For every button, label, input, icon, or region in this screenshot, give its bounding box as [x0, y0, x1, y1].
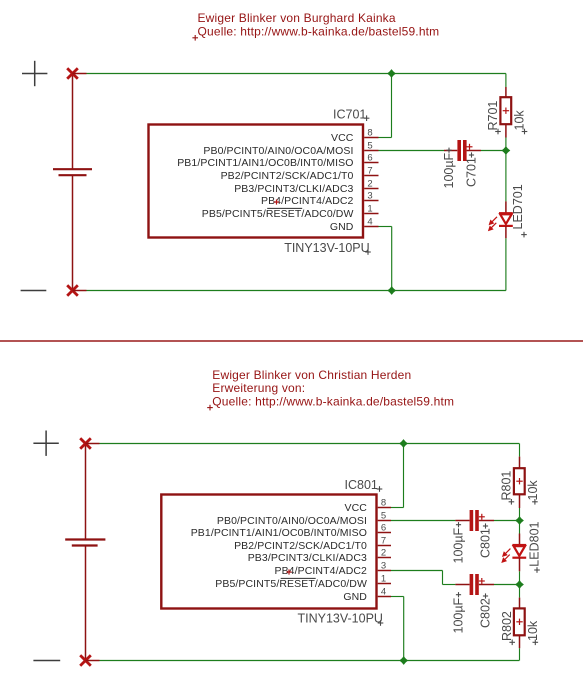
IC name origin cross: [377, 486, 383, 492]
junction dot on top rail: [387, 69, 396, 78]
IC name origin cross: [364, 115, 370, 121]
R701 name label: [486, 101, 500, 131]
C801 value 100µF: [452, 527, 466, 563]
resistor R801: [514, 444, 525, 521]
pin number 6: [367, 153, 372, 164]
pin number 4: [367, 217, 372, 228]
svg-text:Erweiterung von:: Erweiterung von:: [212, 381, 305, 395]
RESET overline: [281, 577, 316, 579]
pin name row 3: [261, 195, 354, 207]
svg-text:C801: C801: [479, 528, 493, 558]
pin name row 2: [234, 183, 353, 195]
title text: Erweiterung von:: [212, 381, 305, 395]
wire: bottom ground rail: [100, 660, 520, 662]
battery minus terminal symbol: [33, 660, 60, 662]
text origin cross at Quelle: [207, 405, 213, 411]
svg-text:8: 8: [367, 128, 372, 139]
pin number 1: [381, 574, 386, 585]
svg-text:PB2/PCINT2/SCK/ADC1/T0: PB2/PCINT2/SCK/ADC1/T0: [221, 170, 354, 182]
svg-text:100µF: 100µF: [452, 527, 466, 563]
IC IC701 ATtiny13: [149, 125, 364, 238]
pin 8 stub: [378, 507, 391, 509]
svg-text:3: 3: [367, 191, 372, 202]
IC part origin cross: [286, 569, 291, 574]
svg-text:2: 2: [367, 179, 372, 190]
battery minus terminal symbol: [21, 290, 47, 292]
IC value origin cross: [365, 249, 371, 255]
svg-text:Quelle: http://www.b-kainka.de: Quelle: http://www.b-kainka.de/bastel59.…: [198, 25, 440, 39]
IC part origin cross: [274, 199, 279, 204]
wire: pin 8 VCC to top rail: [379, 74, 392, 138]
LED LED701: [499, 151, 513, 291]
svg-text:4: 4: [367, 217, 372, 228]
pin number 7: [367, 166, 372, 177]
svg-text:7: 7: [367, 166, 372, 177]
pin 8 stub: [364, 137, 378, 139]
pin number 4: [381, 587, 386, 598]
pin number 8: [381, 498, 386, 509]
junction X at battery -: [80, 655, 91, 666]
svg-text:R701: R701: [486, 101, 500, 131]
title text: Ewiger Blinker von Burghard Kainka: [198, 11, 396, 25]
svg-text:3: 3: [381, 561, 386, 572]
pin 7 stub: [378, 545, 391, 547]
wire: battery + pin stub: [86, 443, 100, 445]
svg-text:1: 1: [381, 574, 386, 585]
IC value origin cross: [378, 620, 384, 626]
C802 name label: [479, 598, 493, 628]
junction dot on bottom rail: [399, 656, 408, 665]
pin number 8: [367, 128, 372, 139]
svg-text:10k: 10k: [526, 480, 540, 501]
svg-text:6: 6: [381, 523, 386, 534]
wire: pin 4 GND to bottom rail: [391, 597, 404, 661]
svg-text:PB3/PCINT3/CLKI/ADC3: PB3/PCINT3/CLKI/ADC3: [234, 183, 353, 195]
LED701 emission arrows: [489, 217, 498, 231]
C701 name origin cross: [469, 152, 474, 157]
pin name row 5: [217, 515, 367, 527]
svg-text:PB5/PCINT5/RESET/ADC0/DW: PB5/PCINT5/RESET/ADC0/DW: [202, 208, 354, 220]
pin number 2: [367, 179, 372, 190]
IC value label TINY13V-10PU: [284, 241, 369, 255]
svg-text:8: 8: [381, 498, 386, 509]
svg-text:7: 7: [381, 536, 386, 547]
sheet divider line: [0, 340, 583, 342]
text origin cross at Quelle: [192, 35, 198, 41]
C701 polarity plus: [467, 144, 473, 150]
pin number 2: [381, 548, 386, 559]
pin name row 3: [274, 565, 367, 577]
C802 polarity plus: [479, 578, 485, 584]
LED801 name origin cross: [534, 567, 540, 573]
R801 name label: [500, 471, 514, 501]
capacitor C701: [379, 140, 506, 161]
svg-text:5: 5: [381, 511, 386, 522]
svg-text:10k: 10k: [526, 620, 540, 641]
svg-text:LED701: LED701: [511, 184, 525, 229]
R701 origin cross inside body: [503, 108, 509, 114]
R801 value 10k: [526, 480, 540, 501]
svg-text:PB4/PCINT4/ADC2: PB4/PCINT4/ADC2: [261, 195, 354, 207]
pin 1 stub: [378, 583, 391, 585]
resistor R701: [500, 74, 511, 151]
junction dot R701/C701/LED701: [502, 146, 511, 155]
C801 polarity plus: [479, 514, 485, 520]
svg-text:Ewiger Blinker von Burghard Ka: Ewiger Blinker von Burghard Kainka: [198, 11, 396, 25]
IC value label TINY13V-10PU: [298, 612, 383, 626]
pin name row 6: [177, 157, 353, 169]
IC name label IC801: [345, 478, 378, 492]
pin name row 5: [203, 145, 353, 157]
svg-text:LED801: LED801: [528, 521, 542, 566]
C801 value origin cross: [456, 522, 461, 527]
svg-text:GND: GND: [343, 591, 367, 603]
C701 value 100µF: [442, 152, 456, 188]
C701 value origin cross: [446, 148, 451, 153]
svg-text:TINY13V-10PU: TINY13V-10PU: [284, 241, 369, 255]
R802 value origin cross: [533, 640, 539, 646]
pin 4 stub: [378, 596, 391, 598]
svg-text:PB2/PCINT2/SCK/ADC1/T0: PB2/PCINT2/SCK/ADC1/T0: [234, 540, 367, 552]
wire: pin 4 GND to bottom rail: [379, 227, 392, 291]
junction X at battery -: [67, 285, 78, 296]
pin 6 stub: [378, 532, 391, 534]
pin name row 4: [330, 221, 354, 233]
battery B701: [53, 74, 92, 291]
pin number 5: [367, 141, 372, 152]
svg-text:10k: 10k: [513, 110, 527, 131]
svg-text:PB5/PCINT5/RESET/ADC0/DW: PB5/PCINT5/RESET/ADC0/DW: [215, 578, 367, 590]
junction X at battery +: [80, 438, 91, 449]
svg-text:2: 2: [381, 548, 386, 559]
pin name row 1: [202, 208, 354, 220]
svg-text:C701: C701: [465, 157, 479, 187]
RESET overline: [267, 207, 302, 209]
R802 name label: [500, 611, 514, 641]
wire: pin 8 VCC to top rail: [391, 444, 404, 508]
R801 origin cross inside body: [516, 478, 522, 484]
svg-text:PB1/PCINT1/AIN1/OC0B/INT0/MISO: PB1/PCINT1/AIN1/OC0B/INT0/MISO: [191, 527, 367, 539]
svg-text:Quelle: http://www.b-kainka.de: Quelle: http://www.b-kainka.de/bastel59.…: [212, 394, 454, 408]
title text: Ewiger Blinker von Christian Herden: [212, 368, 411, 382]
svg-text:5: 5: [367, 141, 372, 152]
pin number 1: [367, 204, 372, 215]
svg-text:1: 1: [367, 204, 372, 215]
svg-text:VCC: VCC: [345, 502, 368, 514]
capacitor C802: [455, 574, 519, 595]
wire: pin 3 PB4 to C802: [391, 571, 455, 585]
junction dot on top rail: [399, 439, 408, 448]
pin 1 stub: [364, 213, 378, 215]
svg-text:100µF: 100µF: [452, 597, 466, 633]
C801 name origin cross: [483, 523, 488, 528]
pin name row 8: [331, 132, 354, 144]
capacitor C801: [391, 510, 520, 531]
pin number 5: [381, 511, 386, 522]
LED LED801: [512, 521, 526, 585]
pin name row 2: [248, 552, 367, 564]
pin 5 stub: [364, 150, 378, 152]
C802 name origin cross: [483, 593, 488, 598]
battery plus terminal symbol: [22, 61, 47, 86]
LED801 name label: [528, 521, 542, 566]
svg-text:TINY13V-10PU: TINY13V-10PU: [298, 612, 383, 626]
pin 7 stub: [364, 175, 378, 177]
svg-text:IC701: IC701: [333, 108, 366, 122]
C802 value 100µF: [452, 597, 466, 633]
R802 value 10k: [526, 620, 540, 641]
svg-text:6: 6: [367, 153, 372, 164]
pin name row 8: [345, 502, 368, 514]
junction dot LED801/C802/R802: [515, 580, 524, 589]
pin number 3: [381, 561, 386, 572]
R701 value 10k: [513, 110, 527, 131]
pin name row 1: [215, 578, 367, 590]
junction dot on bottom rail: [387, 286, 396, 295]
LED801 emission arrows: [502, 549, 511, 563]
svg-text:100µF: 100µF: [442, 152, 456, 188]
title text: Quelle: http://www.b-kainka.de/bastel59.: [198, 25, 440, 39]
junction dot R801/C801/LED801: [515, 516, 524, 525]
LED701 name origin cross: [521, 232, 527, 238]
pin 3 stub: [378, 570, 391, 572]
pin number 3: [367, 191, 372, 202]
title text: Quelle: http://www.b-kainka.de/bastel59.: [212, 394, 454, 408]
wire: bottom ground rail: [87, 290, 506, 292]
pin name row 7: [221, 170, 354, 182]
wire: battery + pin stub: [73, 73, 87, 75]
svg-text:PB4/PCINT4/ADC2: PB4/PCINT4/ADC2: [274, 565, 367, 577]
pin 4 stub: [364, 226, 378, 228]
C701 name label: [465, 157, 479, 187]
IC IC801 ATtiny13: [161, 495, 376, 609]
junction X at battery +: [67, 68, 78, 79]
wire: battery - pin stub: [86, 660, 100, 662]
svg-text:GND: GND: [330, 221, 354, 233]
R801 value origin cross: [532, 499, 538, 505]
C802 value origin cross: [456, 592, 461, 597]
R701 name origin cross: [495, 129, 501, 135]
R801 name origin cross: [509, 499, 515, 505]
wire: top supply rail: [100, 443, 520, 445]
svg-text:C802: C802: [479, 598, 493, 628]
pin number 6: [381, 523, 386, 534]
pin name row 4: [343, 591, 367, 603]
IC name label IC701: [333, 108, 366, 122]
R802 origin cross inside body: [516, 619, 522, 625]
C801 name label: [479, 528, 493, 558]
svg-text:PB3/PCINT3/CLKI/ADC3: PB3/PCINT3/CLKI/ADC3: [248, 552, 367, 564]
svg-text:Ewiger Blinker von Christian H: Ewiger Blinker von Christian Herden: [212, 368, 411, 382]
svg-text:4: 4: [381, 587, 386, 598]
pin 2 stub: [364, 188, 378, 190]
svg-text:R802: R802: [500, 611, 514, 641]
pin 5 stub: [378, 520, 391, 522]
R701 value origin cross: [522, 129, 528, 135]
wire: battery - pin stub: [73, 290, 87, 292]
R802 name origin cross: [509, 640, 515, 646]
svg-text:PB0/PCINT0/AIN0/OC0A/MOSI: PB0/PCINT0/AIN0/OC0A/MOSI: [217, 515, 367, 527]
battery plus terminal symbol: [33, 431, 58, 456]
pin number 7: [381, 536, 386, 547]
battery B801: [65, 444, 105, 661]
svg-text:R801: R801: [500, 471, 514, 501]
svg-text:VCC: VCC: [331, 132, 354, 144]
wire: top supply rail: [87, 73, 506, 75]
pin 6 stub: [364, 162, 378, 164]
pin name row 6: [191, 527, 367, 539]
svg-text:PB0/PCINT0/AIN0/OC0A/MOSI: PB0/PCINT0/AIN0/OC0A/MOSI: [203, 145, 353, 157]
resistor R802: [514, 585, 525, 661]
pin name row 7: [234, 540, 367, 552]
svg-text:PB1/PCINT1/AIN1/OC0B/INT0/MISO: PB1/PCINT1/AIN1/OC0B/INT0/MISO: [177, 157, 353, 169]
svg-text:IC801: IC801: [345, 478, 378, 492]
pin 3 stub: [364, 200, 378, 202]
LED701 name label: [511, 184, 525, 229]
pin 2 stub: [378, 557, 391, 559]
